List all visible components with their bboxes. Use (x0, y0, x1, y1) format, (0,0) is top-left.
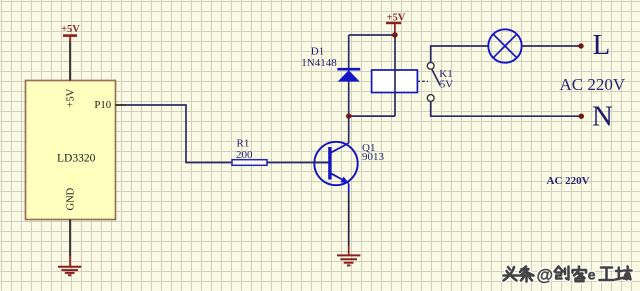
svg-text:9013: 9013 (362, 151, 385, 163)
lamp (488, 29, 521, 62)
ground (under Q1 emitter) (337, 246, 360, 265)
IC U1 LD3320 body (26, 81, 116, 220)
svg-text:P10: P10 (94, 99, 111, 111)
terminal node N (579, 114, 584, 119)
wire diode top to +5V junction (349, 34, 395, 36)
wire diode branch vertical (348, 35, 350, 116)
svg-text:@: @ (537, 266, 554, 285)
relay K1 dashed actuator link (417, 80, 428, 82)
svg-text:N: N (592, 101, 613, 133)
net label L (593, 29, 611, 61)
svg-text:200: 200 (236, 149, 253, 161)
wire emitter to ground (348, 184, 350, 247)
wire switch bottom to N terminal (431, 101, 582, 116)
label K1 (439, 68, 452, 80)
wire switch top to lamp (431, 46, 489, 62)
svg-text:D1: D1 (311, 46, 324, 58)
pin +5V of LD3320 (top pin stub) (69, 41, 71, 81)
power +5V (top) (386, 12, 406, 35)
svg-text:LD3320: LD3320 (57, 153, 96, 165)
svg-text:5V: 5V (440, 79, 454, 91)
relay coil K1 body (372, 70, 418, 93)
pin GND of LD3320 (bottom pin stub) (69, 220, 71, 257)
pin name GND (rotated) (66, 187, 77, 210)
wire R1 to Q1 base (267, 162, 330, 164)
svg-text:+5V: +5V (61, 24, 80, 35)
designator LD3320 (57, 153, 96, 165)
wire lamp to L terminal (522, 45, 581, 47)
transistor Q1 9013 (313, 142, 385, 185)
relay switch contacts K1 (427, 62, 440, 101)
wire collector to junction (348, 116, 350, 143)
wire junction to coil bottom (349, 115, 395, 117)
wire +5V junction down through coil to bottom rail (394, 35, 396, 116)
svg-text:R1: R1 (237, 138, 250, 150)
svg-text:AC 220V: AC 220V (547, 175, 590, 187)
svg-text:AC 220V: AC 220V (560, 75, 626, 94)
svg-text:+5V: +5V (387, 12, 406, 23)
terminal node L (578, 43, 583, 48)
label AC 220V (large) (560, 75, 626, 94)
wire P10 to R1 (116, 105, 233, 163)
svg-text:e: e (588, 267, 596, 283)
junction node (+5V rail) (392, 32, 398, 38)
power +5V (left) (61, 24, 80, 42)
label 5V (440, 79, 454, 91)
svg-text:L: L (593, 29, 611, 61)
ground (under LD3320) (58, 255, 81, 275)
pin name +5V (rotated) (66, 88, 77, 107)
junction node (collector/diode/coil) (346, 113, 351, 118)
svg-text:+5V: +5V (66, 88, 77, 107)
resistor R1 (232, 138, 267, 166)
svg-text:1N4148: 1N4148 (301, 57, 337, 69)
svg-text:GND: GND (66, 187, 77, 210)
pin name P10 (94, 99, 111, 111)
watermark latin part @ e (537, 266, 596, 285)
label AC 220V (small) (547, 175, 590, 187)
net label N (592, 101, 613, 133)
diode D1 1N4148 (301, 46, 360, 82)
